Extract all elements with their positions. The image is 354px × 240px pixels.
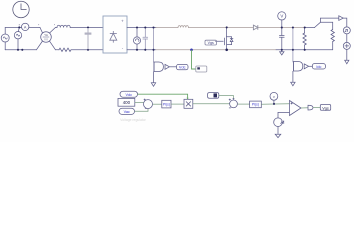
svg-text:Voltage regulator: Voltage regulator xyxy=(120,118,147,122)
svg-text:Vgs: Vgs xyxy=(322,106,329,110)
svg-text:PI(s): PI(s) xyxy=(163,103,170,107)
svg-text:Idc: Idc xyxy=(316,65,321,69)
svg-text:Vgs: Vgs xyxy=(208,41,214,45)
svg-text:Vac: Vac xyxy=(124,110,130,114)
svg-text:YY: YY xyxy=(44,38,48,42)
svg-text:Vdc: Vdc xyxy=(179,66,186,70)
svg-text:PI(s): PI(s) xyxy=(252,103,259,107)
svg-text:YA: YA xyxy=(44,33,48,37)
svg-text:+: + xyxy=(121,18,124,23)
svg-text:V: V xyxy=(280,14,283,19)
svg-text:Vdc: Vdc xyxy=(126,93,133,97)
svg-text:400: 400 xyxy=(123,100,131,105)
svg-text:v: v xyxy=(273,94,275,99)
svg-text:A: A xyxy=(24,25,27,29)
